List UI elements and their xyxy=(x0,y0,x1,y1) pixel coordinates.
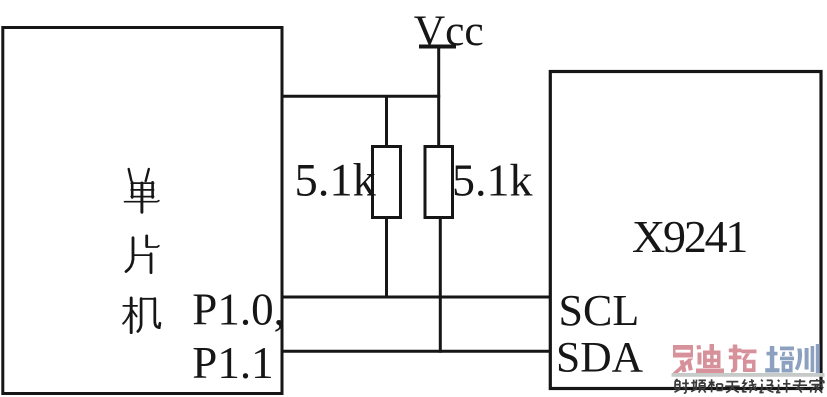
label 单 (hand-drawn glyph) xyxy=(125,169,159,212)
wire R1 bottom lead to SCL xyxy=(385,218,388,298)
wire top rail from MCU to Vcc node xyxy=(281,95,440,98)
label 片 (hand-drawn glyph) xyxy=(126,236,159,273)
wire R1 top lead xyxy=(385,96,388,148)
svg-text:SDA: SDA xyxy=(556,334,644,382)
watermark 培训 (blue, hand-drawn blocky glyphs) xyxy=(765,344,820,373)
MCU box U1 (单片机) xyxy=(3,28,282,394)
svg-text:X9241: X9241 xyxy=(632,211,746,262)
wire SDA net P1.1 to SDA xyxy=(281,350,552,353)
wire R2 bottom lead to SDA xyxy=(439,218,442,353)
watermark 易迪拓 (pink, hand-drawn blocky glyphs) xyxy=(672,344,757,374)
svg-text:5.1k: 5.1k xyxy=(452,154,533,205)
X9241 box U2 xyxy=(550,72,821,389)
resistor R1 body 5.1k xyxy=(373,147,401,218)
watermark gray underline xyxy=(672,373,825,377)
svg-text:5.1k: 5.1k xyxy=(295,155,377,206)
label 机 (hand-drawn glyph) xyxy=(123,298,160,333)
watermark subtitle 射频和天线设计专家 (gray, hand-drawn) xyxy=(675,379,824,393)
svg-text:SCL: SCL xyxy=(559,286,640,335)
resistor R2 body 5.1k xyxy=(425,147,453,218)
svg-text:P1.1: P1.1 xyxy=(192,338,273,388)
wire SCL net P1.0 to SCL xyxy=(281,296,552,299)
wire Vcc vertical down xyxy=(437,47,440,148)
svg-text:P1.0,: P1.0, xyxy=(192,285,285,335)
Vcc rail bar xyxy=(419,45,456,49)
